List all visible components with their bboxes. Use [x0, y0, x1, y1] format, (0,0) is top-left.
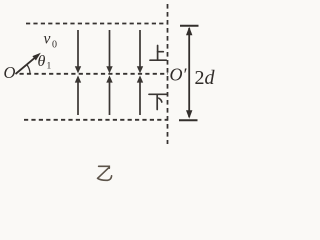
right screen vertical dashed line: [167, 4, 169, 144]
velocity vector v0 shaft: [16, 57, 37, 74]
2d measure top cap: [180, 25, 199, 27]
velocity vector v0 head: [32, 53, 40, 61]
field arrow up 3 head: [137, 75, 143, 82]
label XIA (lower region) hand-drawn: [149, 94, 167, 109]
bottom boundary dashed line: [24, 119, 168, 121]
field arrow down 1 head: [75, 66, 81, 73]
svg-text:θ: θ: [38, 53, 46, 70]
svg-text:O: O: [4, 63, 16, 82]
field arrow up 3 shaft: [139, 81, 141, 115]
svg-text:O′: O′: [170, 65, 188, 85]
field arrow up 2 shaft: [109, 81, 111, 115]
field arrow up 1 shaft: [77, 81, 79, 115]
field arrow down 3 head: [137, 66, 143, 73]
angle arc theta1: [27, 64, 30, 73]
top boundary dashed line: [26, 23, 168, 25]
2d measure shaft: [188, 28, 190, 117]
svg-text:1: 1: [47, 62, 52, 72]
field arrow down 2 head: [106, 66, 112, 73]
svg-text:2d: 2d: [195, 67, 216, 89]
2d measure bottom cap: [179, 119, 198, 121]
field arrow down 2 shaft: [109, 30, 111, 68]
label YI (figure b) hand-drawn: [98, 166, 112, 180]
field arrow down 3 shaft: [139, 30, 141, 68]
2d measure up arrowhead: [186, 27, 192, 36]
label SHANG (upper region) hand-drawn: [150, 46, 166, 61]
field arrow down 1 shaft: [77, 30, 79, 68]
field arrow up 2 head: [106, 75, 112, 82]
svg-text:0: 0: [52, 40, 57, 51]
2d measure down arrowhead: [186, 110, 192, 119]
svg-text:v: v: [44, 31, 51, 48]
field arrow up 1 head: [75, 75, 81, 82]
middle axis dashed line OO': [20, 73, 169, 75]
